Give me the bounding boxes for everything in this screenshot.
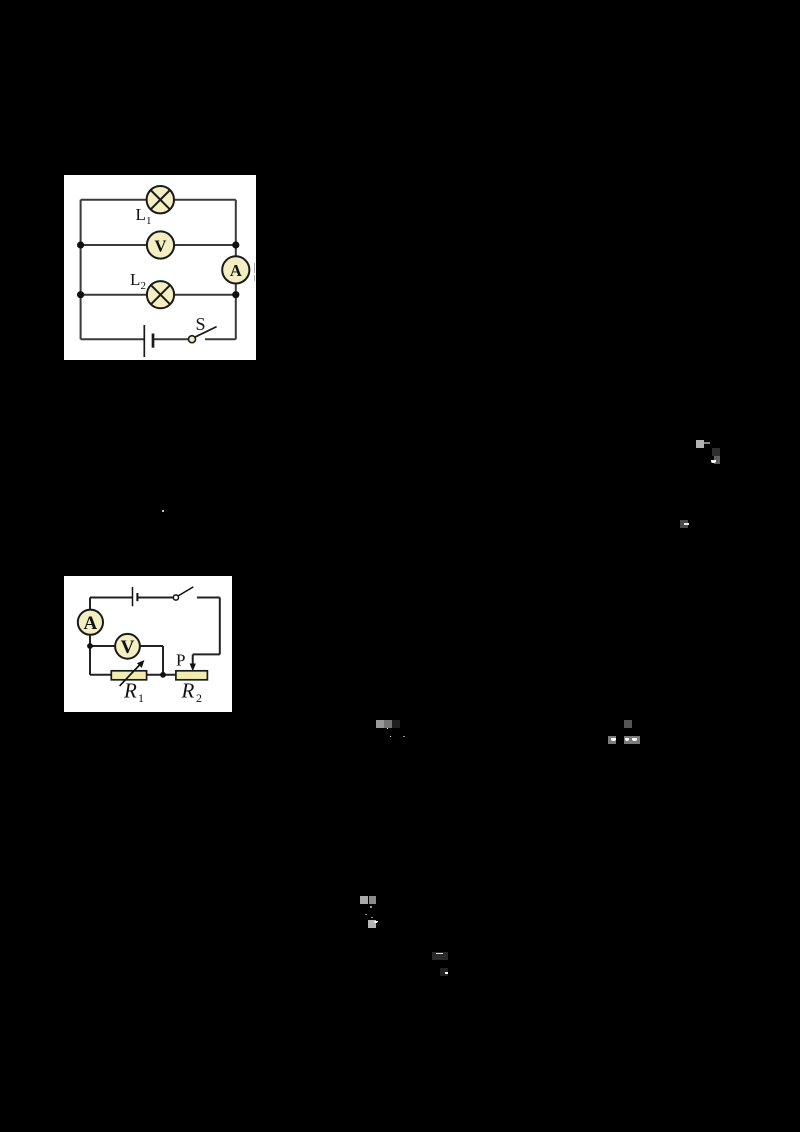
rheostat R1 arrow head <box>137 660 145 668</box>
svg-text:1: 1 <box>138 691 144 705</box>
svg-text:A: A <box>230 261 242 280</box>
slider arrow head <box>190 664 196 672</box>
svg-text:V: V <box>121 637 135 658</box>
wire left down to ammeter <box>89 598 91 611</box>
faint white speck near (162,510) <box>162 510 164 512</box>
switch contact <box>173 595 178 600</box>
faint glyph blob near (680,524) <box>680 520 688 528</box>
node dot left V <box>77 241 84 248</box>
wire R1 to R2 <box>147 674 176 676</box>
ammeter A <box>222 256 249 283</box>
faint glyph blob near (700,445) <box>696 440 704 448</box>
wire left vertical to bottom <box>89 646 91 675</box>
rheostat R1 arrow shaft <box>120 663 142 686</box>
wire top branch <box>81 199 236 201</box>
ammeter A <box>78 610 103 635</box>
svg-text:2: 2 <box>141 280 147 292</box>
svg-text:A: A <box>84 613 98 634</box>
wire top mid segment <box>138 597 173 599</box>
svg-text:P: P <box>176 651 185 670</box>
node dot left L2 <box>77 291 84 298</box>
circuit panel 1: two lamps L1/L2 in parallel with voltmeter V, ammeter A, battery and switch S <box>64 175 256 360</box>
wire to slider <box>193 653 220 655</box>
battery long plate <box>132 587 134 606</box>
voltmeter V <box>115 634 140 659</box>
svg-text:R: R <box>181 679 195 703</box>
node dot right L2 <box>232 291 239 298</box>
battery short plate <box>136 593 138 601</box>
switch blade <box>195 327 217 338</box>
wire voltmeter branch down <box>162 646 164 675</box>
svg-text:2: 2 <box>196 691 202 705</box>
resistor R2 <box>176 671 208 680</box>
node dot right V <box>232 241 239 248</box>
battery short plate <box>152 334 155 348</box>
svg-text:L: L <box>130 270 140 289</box>
wire lamp L2 branch <box>81 294 236 296</box>
faint glyph blob near (440,960) <box>432 952 448 960</box>
lamp L2 <box>147 281 174 308</box>
lamp L1 <box>147 186 174 213</box>
faint glyph blob near (628,730) <box>624 720 632 728</box>
battery long plate <box>143 325 145 357</box>
switch S contact <box>189 336 196 343</box>
svg-text:L: L <box>136 205 146 224</box>
svg-text:V: V <box>155 236 167 255</box>
rheostat R1 <box>111 671 146 680</box>
wire voltmeter branch <box>81 244 236 246</box>
svg-text:R: R <box>123 679 137 703</box>
wire right vertical <box>219 598 221 655</box>
faint glyph blob near (384,724) <box>376 720 385 728</box>
wire bottom left segment <box>81 338 144 340</box>
wire ammeter to node <box>89 634 91 646</box>
circuit panel 2: ammeter A, voltmeter V over rheostat R1, resistor R2 with slider P, battery, switch <box>64 576 232 712</box>
wire left vertical <box>80 200 82 340</box>
switch blade <box>178 587 193 596</box>
svg-text:1: 1 <box>146 215 152 227</box>
wire bottom to R1 <box>90 674 111 676</box>
wire top left segment <box>90 597 132 599</box>
faint edge artifact on panel 1 right edge <box>254 263 255 273</box>
svg-text:S: S <box>196 314 206 334</box>
wire right vertical <box>235 200 237 340</box>
node dot A-V junction <box>87 643 93 649</box>
slider arrow P shaft <box>192 654 194 665</box>
wire bottom right segment <box>205 338 236 340</box>
wire top right segment <box>197 597 220 599</box>
wire voltmeter branch <box>90 645 163 647</box>
faint glyph blob near (368,905) <box>360 896 368 904</box>
node dot R1-R2 junction <box>160 672 166 678</box>
wire bottom mid segment <box>153 338 189 340</box>
voltmeter V <box>147 231 174 258</box>
